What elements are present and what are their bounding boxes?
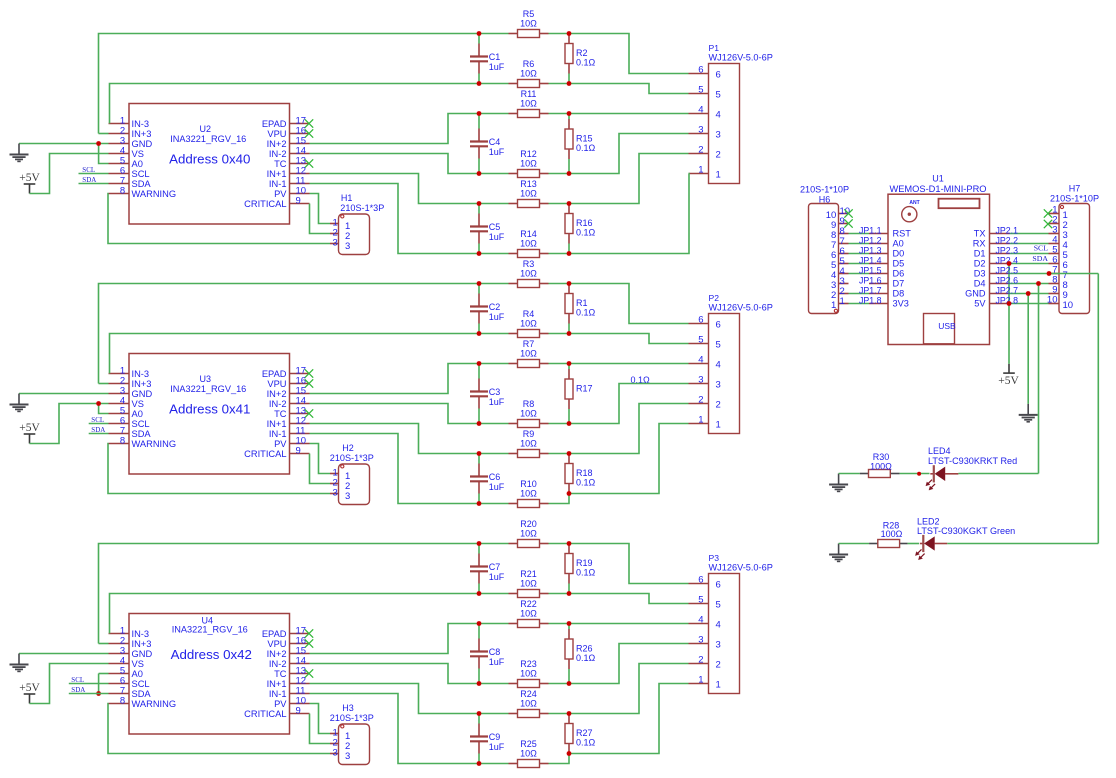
svg-text:6: 6 (698, 65, 703, 76)
+5V power flag (24, 434, 36, 444)
wire row1 to IN+3 (99, 284, 480, 384)
svg-text:210S-1*3P: 210S-1*3P (330, 713, 374, 723)
wire +5V to VS (30, 404, 109, 444)
pin 4 of P1 (689, 113, 709, 115)
pin 3 of H1 (330, 243, 339, 245)
svg-text:C5: C5 (489, 222, 501, 232)
wire row5 right to P pin2 (549, 154, 689, 204)
svg-text:U2: U2 (199, 124, 211, 134)
pin 2 of P2 (689, 403, 709, 405)
pin 4 of H6 (839, 273, 849, 275)
pin 1 of H6 (839, 303, 849, 305)
wire D4 net down to LED4 (1038, 284, 1040, 474)
pin D4 of U1 (990, 283, 1010, 285)
ground symbol right (1019, 404, 1038, 422)
pin 4 of H7 (1049, 243, 1060, 245)
svg-text:+5V: +5V (19, 422, 40, 434)
svg-text:IN-3: IN-3 (132, 629, 150, 639)
wire H6 to U1 JP1.4 (849, 263, 870, 265)
svg-text:3: 3 (345, 491, 350, 502)
svg-text:GND: GND (965, 289, 986, 299)
svg-text:D3: D3 (974, 269, 986, 279)
svg-text:VS: VS (132, 659, 144, 669)
svg-text:R8: R8 (523, 399, 535, 409)
LED LED2 green (920, 543, 924, 545)
pin TX of U1 (990, 233, 1010, 235)
svg-text:IN-2: IN-2 (269, 659, 287, 669)
capacitor C2 1uF (478, 284, 480, 294)
pin 16 VPU of U2 (290, 133, 310, 135)
wire LED2 to D3 column (947, 543, 1098, 545)
svg-text:IN-3: IN-3 (132, 369, 150, 379)
svg-text:10Ω: 10Ω (520, 749, 537, 759)
svg-text:SDA: SDA (132, 179, 152, 189)
svg-text:R10: R10 (520, 479, 537, 489)
wire row1 right to P pin6 (549, 544, 689, 584)
antenna circle symbol on U1 (902, 207, 917, 222)
svg-text:A0: A0 (132, 159, 143, 169)
wire H6 to U1 JP1.2 (849, 243, 870, 245)
svg-text:2: 2 (698, 145, 703, 156)
ground symbol (19, 393, 109, 395)
capacitor C5 1uF (478, 204, 480, 214)
resistor R5 10R (509, 33, 518, 35)
pin 11 IN-1 of U4 (290, 693, 310, 695)
svg-text:3: 3 (698, 375, 703, 386)
pin 6 SCL of U2 (109, 173, 130, 175)
wire row5 right to P pin2 (549, 664, 689, 714)
svg-text:R7: R7 (523, 339, 535, 349)
svg-text:+5V: +5V (19, 682, 40, 694)
resistor R19 0.1R shunt (568, 584, 570, 594)
no-connect X on H7 pin 1 (1044, 209, 1052, 217)
svg-text:JP2.3: JP2.3 (996, 245, 1019, 255)
svg-text:0.1Ω: 0.1Ω (576, 58, 596, 68)
resistor R11 10R (509, 113, 518, 115)
svg-text:R15: R15 (576, 134, 593, 144)
svg-text:210S-1*10P: 210S-1*10P (800, 185, 849, 195)
pin D3 of U1 (990, 273, 1010, 275)
wire U1 to H7 JP2.1 (1010, 233, 1049, 235)
svg-text:3: 3 (698, 125, 703, 136)
svg-text:GND: GND (132, 389, 153, 399)
svg-text:R27: R27 (576, 728, 593, 738)
svg-text:8: 8 (120, 435, 125, 446)
wire row1 right to P pin6 (549, 284, 689, 324)
svg-text:TC: TC (274, 409, 287, 419)
svg-text:4: 4 (716, 619, 721, 630)
svg-text:ANT: ANT (909, 200, 919, 206)
svg-text:LED4: LED4 (928, 446, 951, 456)
junctions at cap and shunt columns (477, 281, 482, 286)
net label SCL wire (89, 423, 109, 425)
wire IN-1 to row6 (310, 434, 480, 504)
svg-text:R13: R13 (520, 179, 537, 189)
junction on D2 row (1007, 261, 1012, 266)
pin 6 SCL of U4 (109, 683, 130, 685)
pin 1 of H2 (330, 473, 339, 475)
wire D3 through H7 to LED2 column (1049, 273, 1099, 275)
wire row2 to IN-3 (110, 84, 480, 124)
wire PV to H pin1 (310, 704, 331, 734)
svg-text:3: 3 (333, 237, 338, 248)
pin 16 VPU of U4 (290, 643, 310, 645)
pin 9 CRITICAL of U4 (290, 713, 310, 715)
pin 6 of P3 (689, 583, 709, 585)
no-connect X on H7 pin 2 (1044, 220, 1052, 228)
pin 8 WARNING of U3 (109, 443, 130, 445)
pin 8 WARNING of U2 (109, 193, 130, 195)
svg-text:R2: R2 (576, 48, 588, 58)
svg-text:R23: R23 (520, 659, 537, 669)
svg-text:SCL: SCL (132, 169, 150, 179)
wire row2 right to P pin5 (549, 334, 689, 344)
op-amp U3 INA3221 body (129, 354, 290, 475)
pin 2 IN+3 of U2 (109, 133, 130, 135)
pin 15 IN+2 of U3 (290, 393, 310, 395)
svg-text:D5: D5 (893, 259, 905, 269)
svg-text:R20: R20 (520, 519, 537, 529)
pin 9 of H6 (839, 223, 849, 225)
pin 14 IN-2 of U4 (290, 663, 310, 665)
pin 13 TC of U3 (290, 413, 310, 415)
svg-text:A0: A0 (132, 409, 143, 419)
svg-text:0.1Ω: 0.1Ω (576, 568, 596, 578)
svg-text:5V: 5V (974, 299, 986, 309)
wire IN-2 to row4 (310, 404, 480, 424)
pin 10 PV of U4 (290, 703, 310, 705)
svg-text:C2: C2 (489, 302, 501, 312)
wire H6 to U1 JP1.1 (849, 233, 870, 235)
svg-text:R11: R11 (521, 89, 537, 99)
ground symbol (19, 143, 109, 145)
pin 17 EPAD of U2 (290, 123, 310, 125)
svg-text:JP2.2: JP2.2 (996, 235, 1019, 245)
wire U1 to H7 JP2.7 (1010, 293, 1049, 295)
junction on VS row (96, 401, 101, 406)
pin D5 of U1 (869, 263, 888, 265)
resistor R1 0.1R shunt (568, 324, 570, 334)
+5V power flag (24, 694, 36, 704)
wire A0 to SDA net (99, 673, 109, 675)
svg-text:R16: R16 (576, 218, 593, 228)
wire row4 right to P pin3 (549, 683, 570, 685)
pin 5 of H7 (1049, 253, 1060, 255)
svg-text:R9: R9 (523, 429, 535, 439)
pin 12 IN+1 of U3 (290, 423, 310, 425)
svg-text:INA3221_RGV_16: INA3221_RGV_16 (170, 384, 246, 394)
junction on GND row (1026, 291, 1031, 296)
svg-text:10: 10 (1047, 295, 1058, 306)
svg-text:5: 5 (716, 89, 721, 100)
wire ground to R30 (839, 473, 860, 475)
no-connect X on pin 16 (305, 639, 313, 647)
pin D6 of U1 (869, 273, 888, 275)
svg-text:LED2: LED2 (917, 517, 940, 527)
svg-text:10Ω: 10Ω (520, 189, 537, 199)
pin 10 PV of U2 (290, 193, 310, 195)
svg-text:3: 3 (345, 241, 350, 252)
module shield rectangle on U1 (939, 199, 980, 209)
resistor R9 10R (509, 453, 518, 455)
op-amp U2 INA3221 body (129, 104, 290, 225)
svg-text:10Ω: 10Ω (520, 609, 537, 619)
wire IN+2 to row3 (310, 364, 480, 394)
svg-text:JP1.7: JP1.7 (859, 285, 882, 295)
pin 2 of P3 (689, 663, 709, 665)
no-connect X on pin 17 (305, 119, 313, 127)
svg-text:10Ω: 10Ω (520, 699, 537, 709)
svg-text:D2: D2 (974, 259, 986, 269)
pin 15 IN+2 of U2 (290, 143, 310, 145)
junction on D4 row (1036, 281, 1041, 286)
ground symbol LED4 (829, 474, 848, 492)
svg-text:1: 1 (698, 415, 703, 426)
wire H6 to U1 JP1.8 (849, 303, 870, 305)
wire IN-1 to row6 (310, 694, 480, 764)
svg-text:3: 3 (716, 129, 721, 140)
svg-text:10Ω: 10Ω (520, 99, 537, 109)
svg-text:VPU: VPU (267, 129, 286, 139)
svg-text:3: 3 (698, 635, 703, 646)
resistor R12 10R (509, 173, 518, 175)
svg-text:GND: GND (132, 649, 153, 659)
pin 2 of H2 (330, 483, 339, 485)
svg-text:IN+3: IN+3 (132, 129, 152, 139)
pin 1 IN-3 of U4 (109, 633, 130, 635)
pin 9 CRITICAL of U3 (290, 453, 310, 455)
pin 5 A0 of U3 (109, 413, 130, 415)
svg-text:R1: R1 (576, 298, 588, 308)
svg-text:WEMOS-D1-MINI-PRO: WEMOS-D1-MINI-PRO (889, 184, 986, 194)
pin 5 of P1 (689, 93, 709, 95)
pin 9 of H7 (1049, 293, 1060, 295)
resistor R16 0.1R shunt (568, 244, 570, 254)
svg-text:1uF: 1uF (489, 232, 505, 242)
svg-text:10Ω: 10Ω (520, 439, 537, 449)
ground symbol (19, 653, 109, 655)
wire LED4 to D4 column (958, 473, 1038, 475)
svg-text:SCL: SCL (91, 416, 104, 424)
pin 5 of P2 (689, 343, 709, 345)
resistor R13 10R (509, 203, 518, 205)
svg-text:0.1Ω: 0.1Ω (576, 228, 596, 238)
wire row3 right to P pin4 (549, 363, 689, 365)
svg-text:10Ω: 10Ω (520, 319, 537, 329)
resistor R2 0.1R shunt (568, 74, 570, 84)
pin RST of U1 (869, 233, 888, 235)
svg-text:IN-3: IN-3 (132, 119, 150, 129)
svg-text:WJ126V-5.0-6P: WJ126V-5.0-6P (709, 563, 773, 573)
svg-text:CRITICAL: CRITICAL (244, 709, 286, 719)
wire U1 to H7 JP2.5 (1010, 273, 1049, 275)
svg-text:EPAD: EPAD (262, 119, 287, 129)
wire H6 to U1 JP1.3 (849, 253, 870, 255)
svg-text:Address 0x42: Address 0x42 (171, 647, 252, 662)
no-connect X on H6 pin 10 (844, 209, 852, 217)
svg-text:IN+3: IN+3 (132, 639, 152, 649)
svg-text:JP1.8: JP1.8 (859, 295, 882, 305)
no-connect X on pin 16 (305, 379, 313, 387)
svg-text:10Ω: 10Ω (520, 579, 537, 589)
svg-text:WJ126V-5.0-6P: WJ126V-5.0-6P (709, 303, 773, 313)
pin 3 GND of U4 (109, 653, 130, 655)
capacitor C9 1uF (478, 714, 480, 724)
svg-text:TX: TX (974, 229, 986, 239)
svg-text:SDA: SDA (82, 176, 96, 184)
svg-text:USB: USB (938, 321, 956, 331)
svg-text:P3: P3 (709, 553, 720, 563)
wire WARNING to H pin3 (108, 444, 330, 494)
svg-text:C3: C3 (489, 387, 501, 397)
svg-text:VS: VS (132, 149, 144, 159)
pin A0 of U1 (869, 243, 888, 245)
svg-text:R12: R12 (520, 149, 537, 159)
pin 2 IN+3 of U3 (109, 383, 130, 385)
svg-text:2: 2 (698, 655, 703, 666)
pin 1 IN-3 of U2 (109, 123, 130, 125)
pin 3 of H3 (330, 753, 339, 755)
resistor R14 10R (509, 253, 518, 255)
svg-text:Address 0x40: Address 0x40 (169, 152, 250, 167)
svg-text:3: 3 (333, 747, 338, 758)
pin 5 A0 of U2 (109, 163, 130, 165)
wire GND net to ground (1027, 294, 1029, 404)
wire R28 to LED2 (908, 543, 919, 545)
svg-text:D1: D1 (974, 249, 986, 259)
pin 2 of H3 (330, 743, 339, 745)
svg-text:H1: H1 (341, 193, 353, 203)
junction on D3 row (1047, 271, 1052, 276)
svg-text:SCL: SCL (1034, 244, 1049, 253)
resistor R17 0.1R shunt (568, 364, 570, 370)
wire IN-1 to row6 (310, 184, 480, 254)
svg-text:R30: R30 (873, 452, 890, 462)
svg-text:2: 2 (716, 659, 721, 670)
pin 7 of H6 (839, 243, 849, 245)
svg-text:210S-1*3P: 210S-1*3P (340, 203, 384, 213)
svg-text:10Ω: 10Ω (520, 239, 537, 249)
pin 4 VS of U2 (109, 153, 130, 155)
pin 1 of P2 (689, 423, 709, 425)
svg-text:R26: R26 (576, 644, 593, 654)
svg-text:JP1.4: JP1.4 (859, 255, 882, 265)
pin 10 PV of U3 (290, 443, 310, 445)
svg-text:JP2.5: JP2.5 (996, 265, 1019, 275)
svg-text:WJ126V-5.0-6P: WJ126V-5.0-6P (709, 53, 773, 63)
svg-text:3: 3 (333, 487, 338, 498)
resistor R15 0.1R shunt (568, 114, 570, 120)
svg-text:IN+2: IN+2 (267, 649, 287, 659)
svg-text:6: 6 (716, 319, 721, 330)
svg-text:10Ω: 10Ω (520, 409, 537, 419)
svg-text:R22: R22 (520, 599, 537, 609)
svg-text:0.1Ω: 0.1Ω (576, 143, 596, 153)
svg-text:10Ω: 10Ω (520, 669, 537, 679)
svg-text:5: 5 (698, 335, 703, 346)
svg-text:5: 5 (716, 339, 721, 350)
svg-text:10Ω: 10Ω (520, 349, 537, 359)
pin D1 of U1 (990, 253, 1010, 255)
wire row5 right to P pin2 (549, 404, 689, 454)
svg-text:4: 4 (716, 109, 721, 120)
svg-text:9: 9 (296, 706, 301, 717)
svg-text:D7: D7 (893, 279, 905, 289)
pin 3 of P2 (689, 383, 709, 385)
pin 4 VS of U3 (109, 403, 130, 405)
svg-text:1uF: 1uF (489, 657, 505, 667)
svg-text:C7: C7 (489, 562, 501, 572)
svg-text:100Ω: 100Ω (870, 462, 892, 472)
wire IN+1 to row5 (310, 684, 480, 714)
pin 3 GND of U3 (109, 393, 130, 395)
svg-text:PV: PV (274, 439, 287, 449)
svg-text:4: 4 (716, 359, 721, 370)
svg-text:0.1Ω: 0.1Ω (576, 478, 596, 488)
resistor R28 100R (869, 543, 878, 545)
wire A0 to GND net (99, 144, 109, 164)
pin 1 of P1 (689, 173, 709, 175)
wire U1 to H7 JP2.2 (1010, 243, 1049, 245)
svg-text:D0: D0 (893, 249, 905, 259)
resistor R10 10R (509, 503, 518, 505)
svg-text:210S-1*10P: 210S-1*10P (1050, 194, 1099, 204)
wire R30 to LED4 (900, 473, 930, 475)
net label SDA wire (79, 183, 109, 185)
capacitor C8 1uF (478, 624, 480, 639)
wire A0 to VS net (99, 404, 109, 414)
svg-text:WARNING: WARNING (132, 189, 177, 199)
pin 5 A0 of U4 (109, 673, 130, 675)
pin D8 of U1 (869, 293, 888, 295)
wire WARNING to H pin3 (108, 704, 330, 754)
svg-text:C8: C8 (489, 647, 501, 657)
pin D2 of U1 (990, 263, 1010, 265)
pin 10 of H7 (1049, 303, 1060, 305)
svg-text:6: 6 (698, 575, 703, 586)
svg-text:1uF: 1uF (489, 147, 505, 157)
junctions at cap and shunt columns (477, 541, 482, 546)
svg-text:10Ω: 10Ω (520, 69, 537, 79)
net label SDA wire (89, 433, 109, 435)
svg-text:Address 0x41: Address 0x41 (169, 402, 250, 417)
pin 3 of P3 (689, 643, 709, 645)
USB connector rectangle on U1 (924, 314, 955, 344)
resistor R3 10R (509, 283, 518, 285)
svg-text:C4: C4 (489, 137, 501, 147)
svg-text:R14: R14 (520, 229, 537, 239)
pin 3 of H6 (839, 283, 849, 285)
no-connect X on pin 13 (305, 669, 313, 677)
svg-text:6: 6 (716, 579, 721, 590)
wire IN+1 to row5 (310, 174, 480, 204)
no-connect X on pin 13 (305, 159, 313, 167)
wire CRITICAL to H pin2 (310, 204, 331, 234)
svg-text:R17: R17 (576, 384, 593, 394)
svg-text:100Ω: 100Ω (881, 529, 903, 539)
svg-text:9: 9 (296, 446, 301, 457)
svg-text:TC: TC (274, 669, 287, 679)
svg-text:9: 9 (296, 196, 301, 207)
svg-text:JP1.3: JP1.3 (859, 245, 882, 255)
pin 4 of P3 (689, 623, 709, 625)
svg-text:+5V: +5V (19, 172, 40, 184)
wire IN-2 to row4 (310, 664, 480, 684)
wire CRITICAL to H pin2 (310, 454, 331, 484)
wire row6 jog to P pin1 (549, 684, 689, 764)
svg-text:R18: R18 (576, 468, 593, 478)
svg-text:+5V: +5V (998, 375, 1019, 387)
